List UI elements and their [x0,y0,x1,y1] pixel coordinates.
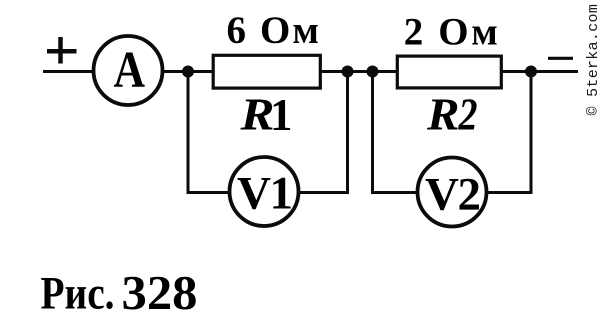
svg-text:2: 2 [458,90,478,140]
svg-text:1: 1 [270,90,293,140]
ammeter A [94,36,163,105]
svg-text:Рис.: Рис. [41,268,115,320]
node d junction [525,66,537,78]
node b junction [342,66,354,78]
svg-text:R: R [426,90,460,140]
wire V1 right branch [299,72,348,193]
resistor R1 [213,55,320,88]
resistor R2 [397,56,501,88]
svg-text:V1: V1 [237,168,293,220]
wire left lead [43,70,94,73]
wire V1 left branch [188,72,229,193]
svg-text:328: 328 [122,265,198,320]
wire V2 left branch [373,72,418,193]
wire ammeter to R1 [163,70,212,73]
wire R1 to R2 [321,70,397,73]
node c junction [367,66,379,78]
svg-text:6 Ом: 6 Ом [227,9,320,52]
svg-text:A: A [114,42,146,99]
wire V2 right branch [487,72,531,193]
plus terminal [47,37,77,64]
node a junction [182,66,194,78]
svg-text:V2: V2 [425,169,481,221]
voltmeter V1 [230,157,299,226]
svg-text:© 5terka.com: © 5terka.com [585,4,599,116]
minus terminal [548,57,573,60]
voltmeter V2 [418,158,487,227]
wire R2 to minus [502,70,578,73]
svg-text:2 Ом: 2 Ом [404,11,498,54]
